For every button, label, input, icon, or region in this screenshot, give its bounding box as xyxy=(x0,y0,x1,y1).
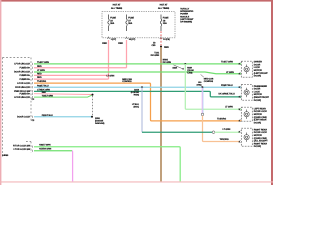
svg-text:MOTOR: MOTOR xyxy=(254,69,262,72)
svg-text:(QUAD CAB): (QUAD CAB) xyxy=(254,137,267,140)
svg-text:DOOR: DOOR xyxy=(254,63,261,66)
svg-text:DOOR LOCK: DOOR LOCK xyxy=(254,110,267,113)
svg-text:1 (C7): 1 (C7) xyxy=(111,38,117,41)
svg-text:10 (C7): 10 (C7) xyxy=(129,38,136,41)
svg-text:T14/LT GRN: T14/LT GRN xyxy=(37,61,49,64)
svg-text:RED: RED xyxy=(118,42,123,45)
svg-text:30A: 30A xyxy=(110,22,114,25)
svg-text:MODULE: MODULE xyxy=(180,15,189,18)
svg-text:CONFIGS: CONFIGS xyxy=(122,80,132,83)
svg-text:LOCK: LOCK xyxy=(254,66,260,69)
svg-text:(LEFT FRONT: (LEFT FRONT xyxy=(254,72,268,75)
svg-text:H17/DK GRN: H17/DK GRN xyxy=(39,147,52,150)
svg-text:T14/ORG: T14/ORG xyxy=(217,118,226,121)
svg-text:PASSENGER: PASSENGER xyxy=(254,85,268,88)
svg-text:T41/ORG: T41/ORG xyxy=(220,138,229,141)
svg-text:MOTOR: MOTOR xyxy=(254,134,262,137)
svg-text:12 (C6): 12 (C6) xyxy=(163,38,170,41)
svg-text:ALL TIMES: ALL TIMES xyxy=(158,7,170,10)
svg-text:RAM): RAM) xyxy=(134,94,140,97)
svg-text:RED: RED xyxy=(42,91,47,94)
svg-text:T14/LT GRN: T14/LT GRN xyxy=(42,95,54,98)
svg-text:BRN/: BRN/ xyxy=(163,58,169,61)
svg-text:P33/LT BLU: P33/LT BLU xyxy=(221,84,233,87)
svg-text:DOOR): DOOR) xyxy=(254,99,261,102)
svg-text:P33/LT BLU: P33/LT BLU xyxy=(42,114,53,117)
svg-text:LF DR LOCK: LF DR LOCK xyxy=(17,82,30,85)
svg-text:R DR UNLOCK: R DR UNLOCK xyxy=(15,86,30,89)
svg-text:DOOR): DOOR) xyxy=(254,145,261,148)
svg-text:FUSED B+: FUSED B+ xyxy=(20,74,31,77)
svg-text:DOOR): DOOR) xyxy=(254,75,261,78)
svg-text:LOCK: LOCK xyxy=(254,90,260,93)
svg-text:DOOR LOCK: DOOR LOCK xyxy=(254,131,267,134)
svg-text:10A: 10A xyxy=(163,22,167,25)
svg-text:30A: 30A xyxy=(128,22,132,25)
svg-text:FUSE: FUSE xyxy=(110,17,116,20)
svg-text:LT GRN: LT GRN xyxy=(107,74,115,77)
svg-text:H16/LT GRN: H16/LT GRN xyxy=(39,144,51,147)
svg-text:CT4/DK GRN: CT4/DK GRN xyxy=(37,88,50,91)
svg-text:CONFIGS: CONFIGS xyxy=(204,80,214,83)
svg-text:(W/D): (W/D) xyxy=(197,83,202,86)
svg-text:DK GRN/LT BLU: DK GRN/LT BLU xyxy=(219,92,236,95)
svg-text:(ALL EXCEPT: (ALL EXCEPT xyxy=(254,140,268,143)
svg-text:T141: T141 xyxy=(154,51,160,54)
svg-text:PWR DR LK SW: PWR DR LK SW xyxy=(14,90,31,93)
svg-text:DOOR UNLOCK: DOOR UNLOCK xyxy=(14,71,30,74)
svg-text:HOT AT: HOT AT xyxy=(113,4,121,7)
svg-text:RED: RED xyxy=(37,65,42,68)
svg-text:ALL TIMES: ALL TIMES xyxy=(111,7,123,10)
svg-text:RED: RED xyxy=(37,73,42,76)
svg-text:FUSED B+: FUSED B+ xyxy=(20,93,31,96)
svg-text:(LEFT REAR: (LEFT REAR xyxy=(254,119,267,122)
svg-text:RIGHT REAR: RIGHT REAR xyxy=(254,128,268,131)
svg-text:DK GRN: DK GRN xyxy=(151,54,160,57)
svg-text:(M.B.): (M.B.) xyxy=(133,106,139,109)
svg-text:OF ENGINE): OF ENGINE) xyxy=(180,21,192,24)
svg-text:RED: RED xyxy=(102,42,107,45)
svg-text:DOOR): DOOR) xyxy=(254,121,261,124)
svg-text:FUSE: FUSE xyxy=(163,17,169,20)
svg-text:(QUAD CAB): (QUAD CAB) xyxy=(254,116,267,119)
svg-text:DOOR: DOOR xyxy=(254,88,261,91)
svg-text:LT GRN: LT GRN xyxy=(225,106,233,109)
svg-text:DRIVER: DRIVER xyxy=(254,61,262,64)
svg-text:RIGHT REAR: RIGHT REAR xyxy=(254,142,268,145)
svg-text:MOTOR: MOTOR xyxy=(254,93,262,96)
svg-text:RAM 4X4): RAM 4X4) xyxy=(95,122,105,125)
svg-text:CAB): CAB) xyxy=(187,72,192,75)
svg-text:LT GRN: LT GRN xyxy=(226,71,234,74)
svg-text:TOTALLY: TOTALLY xyxy=(180,8,190,11)
svg-text:LEFT REAR: LEFT REAR xyxy=(254,107,266,110)
svg-text:RED: RED xyxy=(164,46,169,49)
svg-text:LT GRN: LT GRN xyxy=(37,69,45,72)
svg-text:T14/ORG: T14/ORG xyxy=(37,80,46,83)
svg-text:LF DR UNLOCK: LF DR UNLOCK xyxy=(14,63,30,66)
svg-text:C4E90: C4E90 xyxy=(2,154,9,157)
svg-text:LT DR LOCK SW: LT DR LOCK SW xyxy=(13,148,30,151)
svg-text:FUSE: FUSE xyxy=(128,17,134,20)
svg-text:INTEGRATED: INTEGRATED xyxy=(180,10,193,13)
svg-text:P33/LT BLU: P33/LT BLU xyxy=(37,84,49,87)
svg-text:LT GRN: LT GRN xyxy=(223,128,231,131)
svg-text:FUSED B+: FUSED B+ xyxy=(20,78,31,81)
svg-text:RT DR LOCK SW: RT DR LOCK SW xyxy=(13,144,31,147)
svg-text:HOT AT: HOT AT xyxy=(160,4,168,7)
svg-text:(LEFT FRONT: (LEFT FRONT xyxy=(180,18,194,21)
svg-text:RED: RED xyxy=(37,76,42,79)
svg-text:(RIGHT FRONT: (RIGHT FRONT xyxy=(254,96,270,99)
svg-text:FUSED B+: FUSED B+ xyxy=(20,67,31,70)
svg-text:T14/LT GRN: T14/LT GRN xyxy=(221,60,233,63)
svg-text:MOTOR: MOTOR xyxy=(254,113,262,116)
svg-text:LF DR UNLOCK: LF DR UNLOCK xyxy=(14,96,30,99)
svg-text:POWER: POWER xyxy=(180,13,188,16)
svg-text:DOOR LOCK: DOOR LOCK xyxy=(17,116,30,119)
